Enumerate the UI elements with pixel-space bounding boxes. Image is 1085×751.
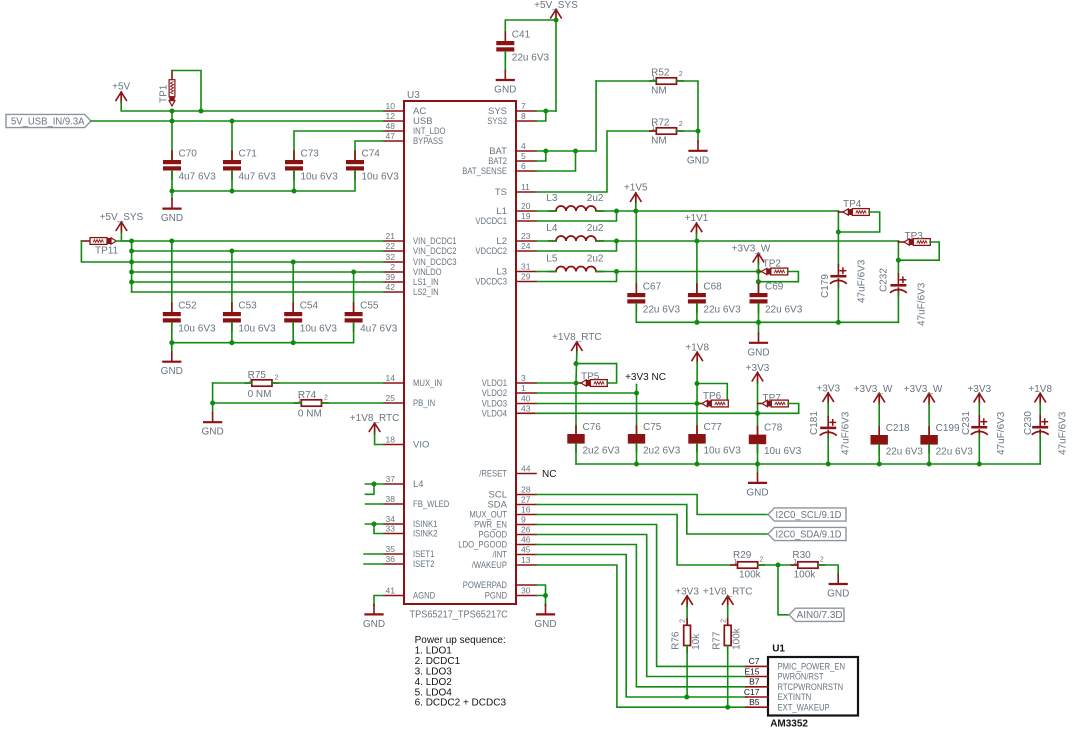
wire VIN caps ground rail xyxy=(172,323,354,343)
svg-text:14: 14 xyxy=(386,373,396,383)
wire row LS2_IN xyxy=(132,291,384,293)
svg-text:C73: C73 xyxy=(301,149,320,160)
svg-text:TP6: TP6 xyxy=(703,391,722,402)
svg-text:PGND: PGND xyxy=(485,591,507,602)
wire C67 riser xyxy=(635,211,637,293)
wire INT_LDO to C73 xyxy=(294,131,384,160)
wire FB_WLED stub xyxy=(366,503,385,505)
svg-text:100k: 100k xyxy=(732,627,743,650)
node junction ldo rail x636 xyxy=(634,462,639,467)
wire C179 bottom xyxy=(837,284,839,322)
net label 5V_USB_IN xyxy=(6,114,91,127)
node junction R72 gnd xyxy=(696,129,701,134)
svg-text:FB_WLED: FB_WLED xyxy=(413,499,449,510)
testpoint TP4 xyxy=(838,211,843,213)
svg-text:C68: C68 xyxy=(703,282,722,293)
node junction ldo rail x697 xyxy=(695,462,700,467)
node junction rail C70 xyxy=(170,189,175,194)
svg-text:45: 45 xyxy=(521,545,531,555)
svg-text:10u 6V3: 10u 6V3 xyxy=(362,172,400,183)
svg-text:+3V3: +3V3 xyxy=(675,586,699,597)
op-amp U1 AM3352 body xyxy=(768,657,858,716)
node junction +5V_SYS top xyxy=(554,18,559,23)
wire row LS1_IN xyxy=(132,281,384,283)
capacitor C53 xyxy=(231,303,233,312)
testpoint TP5 xyxy=(576,382,581,384)
svg-text:32: 32 xyxy=(386,252,396,262)
wire R75 R74 gnd riser xyxy=(212,383,214,403)
node junction +1V1 C68 xyxy=(694,239,699,244)
wire R74 pin2 to PB_IN xyxy=(322,402,385,404)
svg-text:2: 2 xyxy=(720,619,727,623)
power +3V3_W dcdc xyxy=(753,253,764,262)
svg-text:46: 46 xyxy=(521,535,531,545)
U1 pins C7 E15 B7 C17 B5 xyxy=(746,665,768,667)
capacitor C52 xyxy=(171,303,173,312)
svg-text:22u 6V3: 22u 6V3 xyxy=(643,305,681,316)
svg-text:TP4: TP4 xyxy=(843,199,862,210)
svg-text:2: 2 xyxy=(820,557,824,564)
svg-text:VLDO4: VLDO4 xyxy=(482,409,507,420)
svg-text:22u 6V3: 22u 6V3 xyxy=(703,305,741,316)
svg-text:36: 36 xyxy=(386,554,396,564)
wire VIO xyxy=(375,433,384,445)
svg-text:NM: NM xyxy=(651,86,667,97)
U3 right pins with numbers xyxy=(516,110,536,112)
wire C70 riser xyxy=(171,111,173,160)
wire C218 riser xyxy=(878,403,880,435)
svg-text:+1V8_RTC: +1V8_RTC xyxy=(350,413,400,424)
svg-text:2u2: 2u2 xyxy=(587,254,604,265)
power +3V3 C231 xyxy=(974,393,985,402)
svg-text:3. LDO3: 3. LDO3 xyxy=(415,666,453,677)
wire VLDO3 row xyxy=(536,403,697,405)
wire C77 riser xyxy=(696,404,698,435)
node junction R76 EXTINTN xyxy=(684,695,689,700)
svg-text:EXTINTN: EXTINTN xyxy=(778,692,812,702)
testpoint TP7 xyxy=(758,403,763,405)
svg-text:+1V8: +1V8 xyxy=(685,343,709,354)
power +1V8_RTC VIO xyxy=(369,423,380,432)
wire TP3 loop xyxy=(898,242,939,260)
wire +3V3 riser xyxy=(757,383,759,414)
svg-text:+1V5: +1V5 xyxy=(624,183,648,194)
node junction VLDO1 xyxy=(574,381,579,386)
node junction VLDO3 xyxy=(695,401,700,406)
wire C53 riser xyxy=(231,251,233,312)
capacitor C231 xyxy=(978,416,980,426)
svg-text:2: 2 xyxy=(324,395,328,402)
node junction rail C68 xyxy=(694,320,699,325)
node junction C54 xyxy=(291,260,296,265)
wire dcdc caps ground rail xyxy=(636,304,898,323)
wire MUX_OUT to R29 xyxy=(536,515,738,566)
net label I2C0_SDA xyxy=(768,527,846,540)
svg-text:0 NM: 0 NM xyxy=(248,389,272,400)
wire L5 out +3V3_W rail xyxy=(596,271,758,273)
wire row VIN_DCDC3 xyxy=(132,261,384,263)
svg-text:2u2: 2u2 xyxy=(587,223,604,234)
node junction C55 xyxy=(351,270,356,275)
svg-text:24: 24 xyxy=(521,241,531,251)
svg-text:I2C0_SCL/9.1D: I2C0_SCL/9.1D xyxy=(776,510,842,521)
wire +1V8_RTC riser xyxy=(575,352,578,383)
svg-text:U3: U3 xyxy=(407,90,420,101)
svg-text:19: 19 xyxy=(521,211,531,221)
svg-text:5V_USB_IN/9.3A: 5V_USB_IN/9.3A xyxy=(11,116,85,127)
svg-text:4u7 6V3: 4u7 6V3 xyxy=(239,172,277,183)
power +1V1 xyxy=(691,223,702,232)
svg-text:B5: B5 xyxy=(749,697,760,707)
svg-text:0 NM: 0 NM xyxy=(298,408,322,419)
wire VDCDC2 pin xyxy=(536,241,617,251)
wire C69 riser xyxy=(757,272,759,294)
node junction rail C53 xyxy=(229,340,234,345)
svg-text:2: 2 xyxy=(760,557,764,564)
svg-text:10u 6V3: 10u 6V3 xyxy=(301,172,339,183)
node junction ldo rail x979 xyxy=(977,462,982,467)
svg-text:10u 6V3: 10u 6V3 xyxy=(178,324,216,335)
svg-text:47: 47 xyxy=(386,131,396,141)
wire +1V8 riser xyxy=(696,362,698,404)
svg-text:GND: GND xyxy=(161,366,183,377)
svg-text:10u 6V3: 10u 6V3 xyxy=(704,446,742,457)
svg-text:C54: C54 xyxy=(300,301,319,312)
wire C230 bottom xyxy=(1039,435,1041,464)
svg-text:NM: NM xyxy=(651,136,667,147)
testpoint TP3 xyxy=(898,241,904,243)
wire L2 pin to L4 xyxy=(536,240,556,242)
svg-text:1. LDO1: 1. LDO1 xyxy=(415,645,453,656)
svg-text:GND: GND xyxy=(746,487,768,498)
ground VIN caps xyxy=(171,343,173,353)
capacitor C76 xyxy=(575,426,577,434)
svg-text:/RESET: /RESET xyxy=(479,469,507,480)
svg-text:ISINK2: ISINK2 xyxy=(413,529,437,540)
wire SDA xyxy=(536,505,768,535)
wire R52 pin1 xyxy=(596,80,656,82)
node junction TP6 loop xyxy=(695,381,700,386)
svg-text:C7: C7 xyxy=(749,656,760,666)
wire C41 top xyxy=(505,20,556,41)
wire TP11 tip to bus xyxy=(116,240,131,242)
svg-text:+5V: +5V xyxy=(112,82,130,93)
node junction VDCDC1 xyxy=(614,209,619,214)
node junction TP2 loop xyxy=(756,279,761,284)
svg-text:RTCPWRONRSTN: RTCPWRONRSTN xyxy=(778,682,844,692)
wire C199 bottom xyxy=(928,445,930,464)
net label I2C0_SCL xyxy=(768,508,846,521)
svg-text:C181: C181 xyxy=(809,411,820,435)
wire ISINK1 xyxy=(366,523,385,525)
power +5V_SYS left xyxy=(116,222,127,231)
wire L4 pin loop xyxy=(366,483,385,485)
wire L3 out +1V5 rail xyxy=(596,210,838,212)
node junction bus VIN_DCDC2 xyxy=(129,249,134,254)
wire TS to R72 xyxy=(536,131,656,192)
node junction TP4 loop xyxy=(836,230,841,235)
capacitor C55 xyxy=(353,303,355,312)
ground ldo caps xyxy=(757,464,759,473)
svg-text:47uF/6V3: 47uF/6V3 xyxy=(841,411,852,455)
svg-text:44: 44 xyxy=(521,464,531,474)
svg-text:43: 43 xyxy=(521,403,531,413)
svg-text:35: 35 xyxy=(386,544,396,554)
resistor R76 xyxy=(686,619,688,626)
wire TP2 loop xyxy=(758,272,798,282)
capacitor C54 xyxy=(292,303,294,312)
svg-text:9: 9 xyxy=(521,515,526,525)
svg-text:L5: L5 xyxy=(546,254,558,265)
wire R72 pin2 xyxy=(677,130,699,132)
wire TP4 loop xyxy=(838,212,879,232)
wire C55 riser xyxy=(353,272,355,312)
wire R52 pin2 xyxy=(677,81,699,131)
svg-text:GND: GND xyxy=(747,347,769,358)
svg-text:18: 18 xyxy=(386,435,396,445)
wire R76 bottom xyxy=(686,646,688,698)
svg-text:10: 10 xyxy=(386,101,396,111)
svg-text:VDCDC2: VDCDC2 xyxy=(475,246,507,257)
power +3V3 C181 xyxy=(823,393,834,402)
svg-text:L3: L3 xyxy=(546,193,558,204)
svg-text:C17: C17 xyxy=(744,687,760,697)
svg-text:47uF/6V3: 47uF/6V3 xyxy=(996,411,1007,455)
capacitor C230 xyxy=(1039,416,1041,426)
svg-text:PWRON/RST: PWRON/RST xyxy=(778,672,824,682)
svg-text:39: 39 xyxy=(386,272,396,282)
svg-text:100k: 100k xyxy=(794,569,817,580)
wire PWR_EN to U1 xyxy=(536,525,746,667)
node junction VLDO2 xyxy=(634,391,639,396)
svg-text:/WAKEUP: /WAKEUP xyxy=(472,560,507,571)
wire VLDO4 row xyxy=(536,412,758,414)
wire BYPASS to C74 xyxy=(355,141,384,160)
svg-text:C77: C77 xyxy=(704,422,723,433)
wire ISET1 stub xyxy=(364,553,384,555)
wire C54 riser xyxy=(292,262,294,312)
svg-text:NC: NC xyxy=(542,469,556,480)
wire C76 riser xyxy=(575,383,577,434)
node junction PGND xyxy=(543,593,548,598)
svg-text:C232: C232 xyxy=(879,268,890,292)
svg-text:22u 6V3: 22u 6V3 xyxy=(936,447,974,458)
svg-text:47uF/6V3: 47uF/6V3 xyxy=(857,259,868,303)
resistor R29 xyxy=(731,564,738,566)
svg-text:37: 37 xyxy=(386,474,396,484)
wire TP5 loop xyxy=(576,364,617,383)
svg-text:TP11: TP11 xyxy=(95,246,119,257)
svg-text:C52: C52 xyxy=(178,301,197,312)
svg-text:+3V3 NC: +3V3 NC xyxy=(625,372,666,383)
svg-text:C53: C53 xyxy=(238,301,257,312)
svg-text:25: 25 xyxy=(386,393,396,403)
svg-text:13: 13 xyxy=(521,555,531,565)
svg-text:L4: L4 xyxy=(546,223,558,234)
node junction VDCDC2 xyxy=(614,239,619,244)
svg-text:30: 30 xyxy=(521,586,531,596)
wire C68 riser xyxy=(696,241,698,293)
wire C75 riser xyxy=(636,393,638,434)
wire row VINLDO xyxy=(132,271,384,273)
svg-text:10u 6V3: 10u 6V3 xyxy=(764,446,802,457)
svg-text:2: 2 xyxy=(679,619,686,623)
node junction +1V5 C67 xyxy=(633,209,638,214)
inductor L3 xyxy=(549,210,556,212)
wire +1V5 down to C179 xyxy=(837,211,839,266)
svg-text:AM3352: AM3352 xyxy=(770,719,808,730)
wire TP11 back loop xyxy=(81,241,131,262)
wire C71 riser xyxy=(231,121,233,160)
capacitor C74 xyxy=(354,151,356,160)
svg-text:1: 1 xyxy=(652,125,656,132)
svg-text:2: 2 xyxy=(679,121,683,128)
power +3V3_W C199 xyxy=(923,393,934,402)
svg-text:GND: GND xyxy=(161,213,183,224)
ground C41 xyxy=(504,70,506,72)
power +1V8_RTC vldo1 xyxy=(571,342,582,351)
wire SYS2 pin xyxy=(536,111,546,121)
resistor R52 xyxy=(650,80,657,82)
svg-text:28: 28 xyxy=(521,485,531,495)
svg-text:33: 33 xyxy=(386,524,396,534)
svg-text:GND: GND xyxy=(827,589,849,600)
wire +3V3_W stub xyxy=(757,263,759,272)
wire C230 riser xyxy=(1039,403,1041,417)
svg-text:16: 16 xyxy=(521,505,531,515)
node junction R77 EXT_WAKEUP xyxy=(725,705,730,710)
svg-text:GND: GND xyxy=(201,427,223,438)
svg-text:29: 29 xyxy=(521,272,531,282)
wire R30 to gnd xyxy=(818,565,838,575)
svg-text:VIO: VIO xyxy=(413,440,429,451)
power +1V8_RTC R77 xyxy=(722,596,733,605)
wire L3pin to L5 xyxy=(536,271,556,273)
svg-text:+1V8_RTC: +1V8_RTC xyxy=(552,332,602,343)
svg-text:6. DCDC2 + DCDC3: 6. DCDC2 + DCDC3 xyxy=(415,698,507,709)
svg-text:+3V3: +3V3 xyxy=(816,383,840,394)
svg-text:VIN_DCDC2: VIN_DCDC2 xyxy=(413,246,457,257)
svg-text:2: 2 xyxy=(275,375,279,382)
svg-text:+3V3_W: +3V3_W xyxy=(904,384,943,395)
wire R75 pin2 to MUX_IN xyxy=(272,382,384,384)
svg-text:TPS65217_TPS65217C: TPS65217_TPS65217C xyxy=(410,610,508,621)
wire SYS net riser xyxy=(555,20,557,111)
wire TP7 loop xyxy=(758,404,799,414)
node junction TP1 tip xyxy=(170,109,175,114)
svg-text:C78: C78 xyxy=(764,423,783,434)
svg-text:+5V_SYS: +5V_SYS xyxy=(534,0,578,11)
wire BAT row xyxy=(536,81,596,151)
svg-text:10u 6V3: 10u 6V3 xyxy=(300,324,338,335)
capacitor C181 xyxy=(827,417,829,427)
node junction VLDO4 xyxy=(755,411,760,416)
svg-text:C218: C218 xyxy=(886,423,910,434)
capacitor C67 xyxy=(635,284,637,293)
svg-text:40: 40 xyxy=(521,394,531,404)
svg-text:I2C0_SDA/9.1D: I2C0_SDA/9.1D xyxy=(776,529,842,540)
node junction bus LS1_IN xyxy=(129,280,134,285)
testpoint TP6 xyxy=(697,403,702,405)
svg-text:3: 3 xyxy=(521,373,526,383)
svg-text:38: 38 xyxy=(386,494,396,504)
svg-text:MUX_IN: MUX_IN xyxy=(413,378,442,389)
svg-text:TP2: TP2 xyxy=(763,259,782,270)
wire C78 riser xyxy=(757,413,759,434)
node junction rail C54 xyxy=(291,340,296,345)
ground input caps xyxy=(171,191,173,199)
capacitor C199 xyxy=(928,427,930,435)
svg-text:+1V8_RTC: +1V8_RTC xyxy=(703,586,753,597)
svg-text:E15: E15 xyxy=(744,666,759,676)
wire C218 bottom xyxy=(878,445,880,464)
wire ldo caps ground rail xyxy=(576,463,1040,465)
svg-text:C76: C76 xyxy=(583,422,602,433)
svg-text:20: 20 xyxy=(521,201,531,211)
node junction ldo rail x828 xyxy=(826,462,831,467)
svg-text:GND: GND xyxy=(494,85,516,96)
svg-text:+3V3_W: +3V3_W xyxy=(732,244,771,255)
resistor R77 xyxy=(727,619,729,626)
svg-text:4. LDO2: 4. LDO2 xyxy=(415,677,453,688)
svg-text:34: 34 xyxy=(386,514,396,524)
wire row VIN_DCDC2 xyxy=(132,250,384,252)
svg-text:C179: C179 xyxy=(820,274,831,298)
svg-text:41: 41 xyxy=(386,586,396,596)
capacitor C73 xyxy=(293,151,295,160)
resistor R74 xyxy=(295,402,302,404)
node junction TP1 loop xyxy=(199,109,204,114)
svg-text:C199: C199 xyxy=(936,423,960,434)
svg-text:12: 12 xyxy=(386,111,396,121)
svg-text:10u 6V3: 10u 6V3 xyxy=(238,324,276,335)
wire /WAKEUP to U1 xyxy=(536,565,746,707)
svg-text:R77: R77 xyxy=(712,631,723,650)
wire R77 bottom xyxy=(727,646,729,708)
power +1V5 xyxy=(630,193,641,202)
inductor L4 xyxy=(549,240,556,242)
svg-text:VDCDC1: VDCDC1 xyxy=(475,216,507,227)
capacitor C69 xyxy=(758,284,760,293)
svg-text:26: 26 xyxy=(521,525,531,535)
wire +1V5 stub xyxy=(635,203,637,211)
ground dcdc caps xyxy=(758,322,760,333)
wire /INT to U1 xyxy=(536,555,746,698)
node junction VDCDC3 xyxy=(614,269,619,274)
svg-text:10k: 10k xyxy=(691,633,702,650)
testpoint TP2 xyxy=(758,271,761,273)
svg-text:4u7 6V3: 4u7 6V3 xyxy=(179,172,217,183)
wire ISET2 stub xyxy=(364,563,384,565)
wire C78 bottom xyxy=(757,444,759,464)
wire C181 bottom xyxy=(827,436,829,465)
node junction C52 xyxy=(169,239,174,244)
node junction SYS xyxy=(543,109,548,114)
node junction L4 xyxy=(372,482,377,487)
node junction BAT2 xyxy=(543,149,548,154)
svg-text:+3V3: +3V3 xyxy=(746,363,770,374)
svg-text:C74: C74 xyxy=(362,149,381,160)
wire +5V_SYS to VIN bus xyxy=(121,232,131,241)
svg-text:4: 4 xyxy=(521,141,526,151)
svg-text:5. LDO4: 5. LDO4 xyxy=(415,687,453,698)
wire VLDO1 row xyxy=(536,382,576,384)
capacitor C232 xyxy=(897,274,899,284)
wire BAT_SENSE pin xyxy=(536,151,576,171)
node junction ISINK1 xyxy=(372,522,377,527)
wire C41 bottom xyxy=(504,52,506,71)
wire TP6 loop xyxy=(697,384,727,404)
